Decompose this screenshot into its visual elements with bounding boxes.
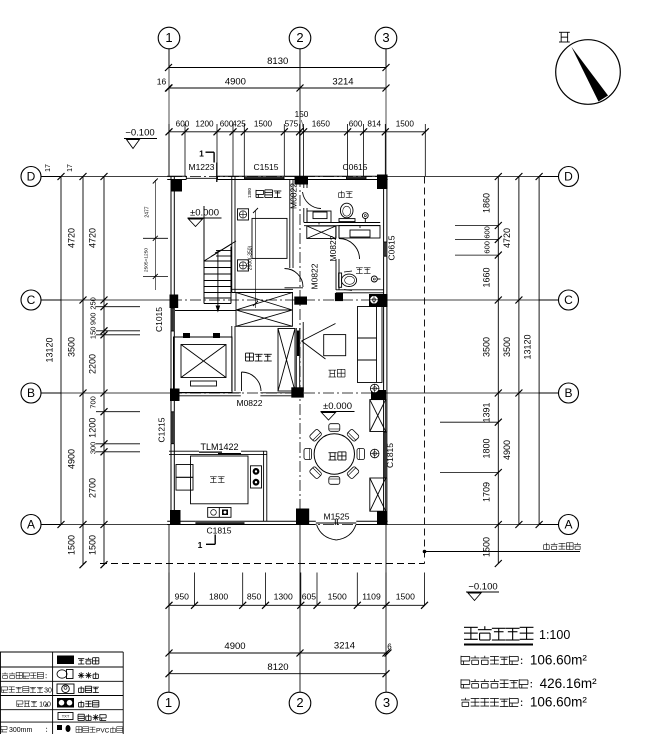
svg-text:250: 250	[89, 297, 98, 310]
svg-text:4720: 4720	[502, 228, 512, 248]
svg-text:1: 1	[199, 149, 204, 159]
svg-text:1200: 1200	[195, 120, 214, 129]
svg-text:4900: 4900	[67, 449, 77, 469]
svg-text:8120: 8120	[267, 662, 288, 673]
svg-text:30: 30	[44, 688, 52, 695]
svg-text:M1525: M1525	[324, 512, 350, 522]
svg-text:2700: 2700	[88, 478, 98, 498]
svg-text:575: 575	[285, 120, 299, 129]
svg-text:M0822: M0822	[237, 398, 263, 408]
svg-text:1709: 1709	[482, 482, 492, 502]
svg-text:1109: 1109	[362, 592, 381, 602]
svg-text:8130: 8130	[267, 56, 288, 67]
svg-text:1500: 1500	[396, 120, 415, 129]
svg-text:6: 6	[387, 643, 392, 652]
svg-text:17: 17	[45, 164, 52, 172]
svg-text:TXT: TXT	[62, 714, 70, 719]
svg-text:1860: 1860	[482, 193, 492, 213]
svg-text:1: 1	[165, 695, 172, 710]
svg-text:−0.100: −0.100	[468, 582, 497, 593]
svg-text:150: 150	[89, 327, 98, 340]
svg-text:605: 605	[302, 592, 317, 602]
svg-text:1391: 1391	[482, 402, 492, 422]
svg-text:M0822: M0822	[310, 263, 320, 289]
svg-text:2477: 2477	[145, 206, 151, 217]
svg-text:C0615: C0615	[387, 235, 397, 260]
svg-text:4900: 4900	[502, 440, 512, 460]
svg-text:1:100: 1:100	[539, 628, 570, 642]
svg-text:100: 100	[39, 702, 51, 709]
svg-text:1800: 1800	[482, 438, 492, 458]
svg-text:1500: 1500	[88, 535, 98, 555]
svg-text:C: C	[564, 293, 573, 307]
svg-text:13120: 13120	[523, 334, 533, 359]
svg-text:1: 1	[198, 540, 203, 550]
svg-text:A: A	[564, 518, 572, 532]
svg-text:±0.000: ±0.000	[190, 208, 219, 219]
svg-text:300mm: 300mm	[9, 727, 33, 734]
svg-text:1380: 1380	[247, 187, 252, 198]
svg-text:850: 850	[247, 592, 262, 602]
svg-text:600: 600	[349, 120, 363, 129]
svg-text:3: 3	[382, 30, 389, 45]
svg-text:600: 600	[483, 226, 492, 239]
svg-text:13120: 13120	[45, 337, 55, 362]
svg-text:A: A	[27, 518, 35, 532]
svg-text:M0822: M0822	[328, 235, 338, 261]
svg-text:1500: 1500	[254, 120, 273, 129]
svg-text:3214: 3214	[332, 77, 353, 88]
svg-text:2505=1250: 2505=1250	[144, 248, 150, 272]
svg-text:2200: 2200	[88, 354, 98, 374]
svg-text:600: 600	[176, 120, 190, 129]
svg-text:4720: 4720	[67, 228, 77, 248]
svg-text:1650: 1650	[312, 120, 331, 129]
svg-text:1200: 1200	[88, 418, 98, 438]
svg-text:PVC: PVC	[96, 728, 110, 734]
svg-text:C1515: C1515	[253, 162, 278, 172]
svg-text:1500: 1500	[482, 537, 492, 557]
svg-text:1500: 1500	[67, 535, 77, 555]
svg-text:3214: 3214	[334, 641, 355, 652]
svg-text:1800: 1800	[209, 592, 228, 602]
svg-text:1660: 1660	[482, 267, 492, 287]
svg-text:700: 700	[89, 396, 98, 409]
svg-text:900: 900	[89, 313, 98, 326]
svg-text:3: 3	[383, 695, 390, 710]
svg-text:2: 2	[296, 695, 303, 710]
svg-text:−0.100: −0.100	[125, 128, 154, 139]
svg-text:150: 150	[295, 110, 309, 119]
svg-text:1500: 1500	[396, 592, 415, 602]
svg-text:C1015: C1015	[154, 307, 164, 332]
svg-text:426.16m²: 426.16m²	[540, 676, 598, 691]
svg-text:16: 16	[157, 77, 167, 87]
svg-text:C1815: C1815	[385, 443, 395, 468]
svg-text:106.60m²: 106.60m²	[530, 695, 588, 710]
svg-text:3500: 3500	[482, 337, 492, 357]
svg-text:M0822: M0822	[289, 183, 299, 209]
svg-text:B: B	[27, 386, 35, 400]
svg-text:1500: 1500	[328, 592, 347, 602]
svg-text:TLM1422: TLM1422	[200, 442, 238, 452]
svg-text:1: 1	[165, 30, 172, 45]
svg-text:±0.000: ±0.000	[323, 401, 352, 412]
svg-text:C: C	[27, 293, 36, 307]
svg-text:4720: 4720	[88, 228, 98, 248]
svg-text:17: 17	[67, 164, 74, 172]
svg-text:106.60m²: 106.60m²	[530, 653, 588, 668]
svg-text:600: 600	[483, 241, 492, 254]
svg-text:D: D	[564, 170, 573, 184]
svg-text:C0615: C0615	[342, 162, 367, 172]
svg-text:950: 950	[175, 592, 190, 602]
svg-text:D: D	[27, 170, 36, 184]
svg-text:300: 300	[89, 442, 98, 455]
svg-text:2500(-350): 2500(-350)	[248, 245, 254, 270]
svg-text:4900: 4900	[224, 641, 245, 652]
svg-text:425: 425	[232, 120, 246, 129]
svg-text:M1223: M1223	[189, 162, 215, 172]
svg-text:C1815: C1815	[206, 526, 231, 536]
svg-text:B: B	[564, 386, 572, 400]
svg-text:3500: 3500	[67, 337, 77, 357]
svg-text:C1215: C1215	[157, 417, 167, 442]
svg-text:3500: 3500	[502, 337, 512, 357]
svg-text:1300: 1300	[274, 592, 293, 602]
svg-text:4900: 4900	[225, 77, 246, 88]
svg-text:814: 814	[367, 120, 381, 129]
svg-text:2: 2	[296, 30, 303, 45]
